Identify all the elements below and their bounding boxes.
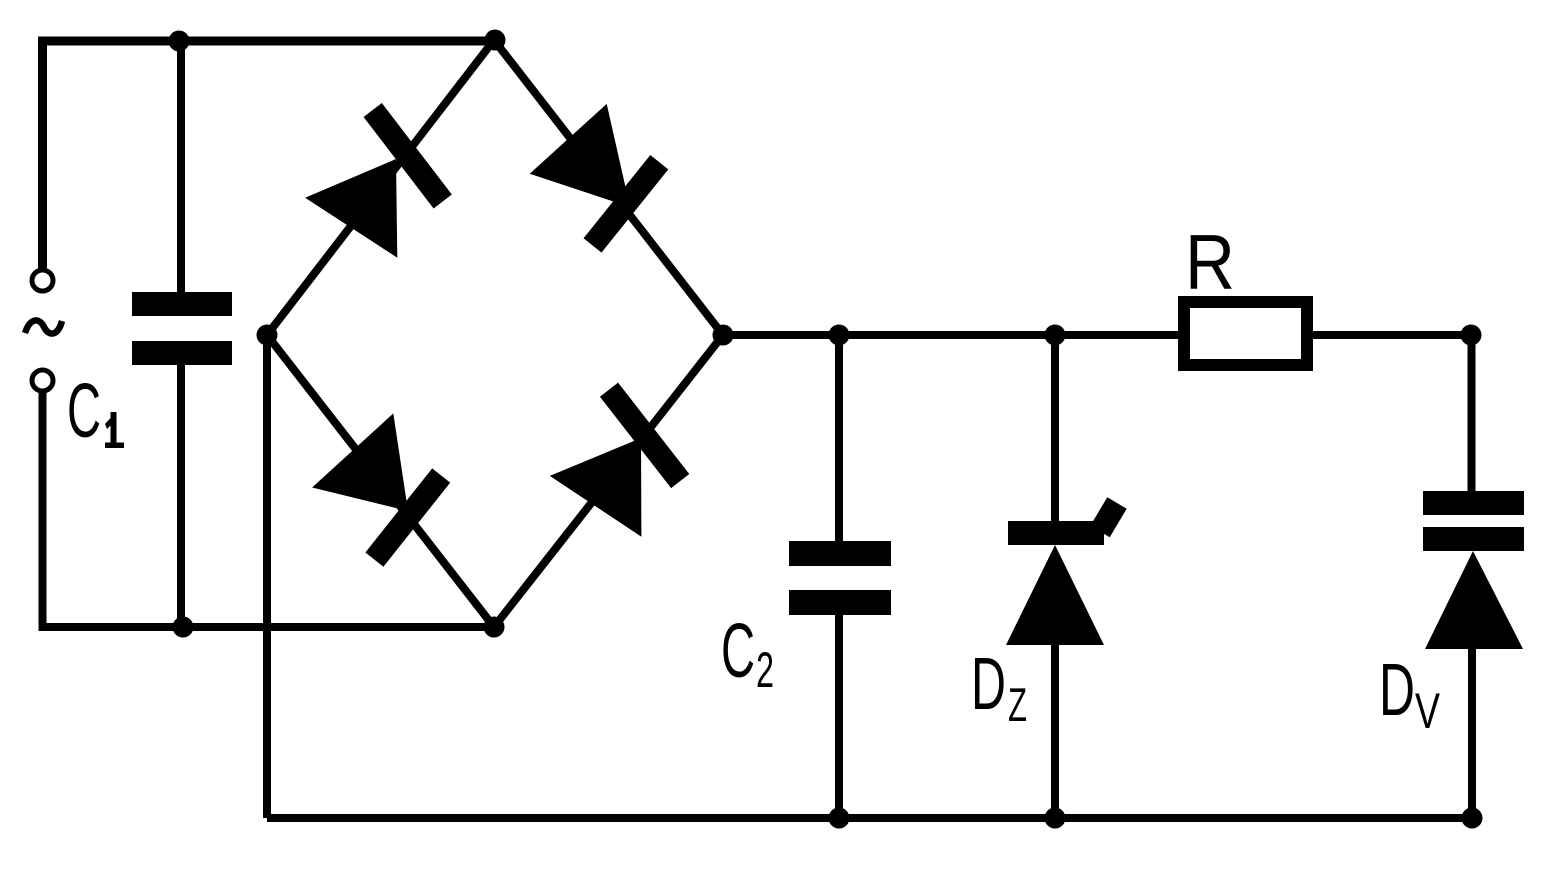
svg-text:V: V xyxy=(1415,683,1440,739)
svg-text:R: R xyxy=(1185,218,1235,306)
svg-text:C: C xyxy=(67,368,101,454)
svg-text:D: D xyxy=(1379,648,1415,731)
svg-text:D: D xyxy=(971,642,1006,725)
svg-text:Z: Z xyxy=(1008,678,1027,731)
svg-text:C: C xyxy=(721,608,755,694)
svg-text:2: 2 xyxy=(756,642,774,698)
